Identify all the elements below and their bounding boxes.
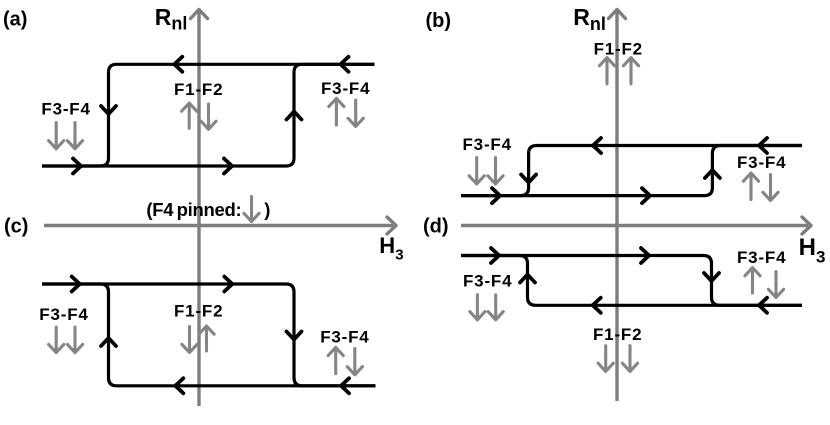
- arrow down (a) center: [201, 104, 216, 129]
- chevron right (b) bottom 2: [642, 188, 650, 203]
- chevron down (d) right vertical: [704, 273, 719, 281]
- svg-text:(c): (c): [4, 216, 28, 238]
- arrow down (c) left 2: [67, 327, 82, 353]
- svg-text:(F4 pinned:: (F4 pinned:: [146, 199, 241, 220]
- arrow down (d) center 1: [598, 346, 613, 372]
- hysteresis loop (c) increasing branch: [42, 284, 376, 386]
- arrow up (d) right: [745, 268, 760, 293]
- chevron down (c) right vertical: [287, 332, 302, 340]
- arrow up (a) right: [329, 98, 344, 125]
- arrow up (b) right: [743, 173, 758, 200]
- arrow down (a) right: [348, 100, 363, 127]
- chevron up (a) right vertical: [287, 112, 302, 120]
- svg-text:F3-F4: F3-F4: [320, 328, 369, 347]
- svg-text:(b): (b): [426, 10, 452, 32]
- hysteresis loop (c) decreasing branch: [42, 284, 376, 386]
- left vertical axis R_nl: [191, 10, 208, 407]
- chevron right (a) bottom 2: [224, 159, 232, 174]
- arrow up (a) center: [182, 103, 197, 128]
- svg-text:(a): (a): [3, 9, 27, 31]
- svg-text:H3: H3: [379, 233, 403, 264]
- arrow down (d) left 2: [488, 295, 503, 320]
- arrow down (d) center 2: [622, 346, 637, 372]
- svg-text:(d): (d): [423, 216, 449, 238]
- svg-text:F3-F4: F3-F4: [737, 153, 786, 172]
- svg-text:F1-F2: F1-F2: [594, 40, 643, 59]
- chevron left (b) top 1: [593, 138, 601, 153]
- chevron right (b) bottom 1: [492, 188, 500, 203]
- arrow down (a) left 1: [49, 123, 64, 149]
- hysteresis loop (b) decreasing branch: [461, 146, 802, 196]
- hysteresis loop (b) increasing branch: [461, 146, 802, 196]
- chevron left (a) top 2: [341, 57, 349, 72]
- chevron up (d) left vertical: [520, 275, 535, 283]
- chevron right (d) top 2: [641, 248, 649, 263]
- svg-text:F1-F2: F1-F2: [174, 80, 223, 99]
- arrow down (a) left 2: [67, 123, 82, 149]
- arrow down (d) left 1: [470, 295, 485, 320]
- hysteresis loop (d) increasing branch: [461, 256, 802, 306]
- chevron down (a) left vertical: [101, 106, 116, 114]
- svg-text:F1-F2: F1-F2: [174, 302, 223, 321]
- chevron right (d) top 1: [491, 248, 499, 263]
- svg-text:F3-F4: F3-F4: [41, 100, 90, 119]
- arrow F4 pinned down: [244, 197, 259, 222]
- svg-text:F3-F4: F3-F4: [737, 248, 786, 267]
- hysteresis loop (a) increasing branch: [42, 64, 375, 166]
- right vertical axis R_nl: [609, 10, 626, 402]
- chevron down (b) left vertical: [521, 175, 536, 183]
- arrow down (c) left 1: [49, 327, 64, 353]
- chevron right (a) bottom 1: [73, 159, 81, 174]
- hysteresis loop (d) decreasing branch: [461, 256, 802, 306]
- svg-text:): ): [264, 199, 270, 220]
- svg-text:F1-F2: F1-F2: [593, 325, 642, 344]
- chevron up (c) left vertical: [101, 338, 116, 346]
- chevron left (b) top 2: [759, 138, 767, 153]
- hysteresis loop (a) decreasing branch: [42, 64, 375, 166]
- right horizontal axis H3: [461, 217, 811, 234]
- arrow up (b) center 2: [623, 58, 638, 84]
- arrow down (c) center: [182, 327, 197, 353]
- arrow down (c) right: [347, 349, 362, 375]
- chevron left (c) bottom 2: [341, 378, 349, 393]
- arrow up (c) center: [199, 326, 214, 351]
- chevron right (c) top 1: [72, 277, 80, 292]
- chevron left (d) bottom 1: [593, 298, 601, 313]
- chevron up (b) right vertical: [705, 170, 720, 178]
- svg-text:H3: H3: [799, 234, 826, 266]
- chevron right (c) top 2: [224, 277, 232, 292]
- svg-text:Rnl: Rnl: [155, 4, 188, 33]
- arrow down (b) right: [763, 175, 778, 201]
- svg-text:F3-F4: F3-F4: [463, 272, 512, 291]
- svg-text:F3-F4: F3-F4: [39, 305, 88, 324]
- svg-text:F3-F4: F3-F4: [321, 79, 370, 98]
- chevron left (d) bottom 2: [759, 298, 767, 313]
- arrow down (b) left 1: [469, 158, 484, 185]
- arrow up (c) right: [328, 347, 343, 373]
- chevron left (a) top 1: [174, 57, 182, 72]
- svg-text:F3-F4: F3-F4: [463, 135, 512, 154]
- chevron left (c) bottom 1: [175, 378, 183, 393]
- arrow down (b) left 2: [488, 158, 503, 185]
- arrow up (b) center 1: [599, 58, 614, 84]
- left horizontal axis H3: [44, 217, 396, 234]
- svg-text:Rnl: Rnl: [573, 4, 606, 34]
- arrow down (d) right: [768, 272, 783, 298]
